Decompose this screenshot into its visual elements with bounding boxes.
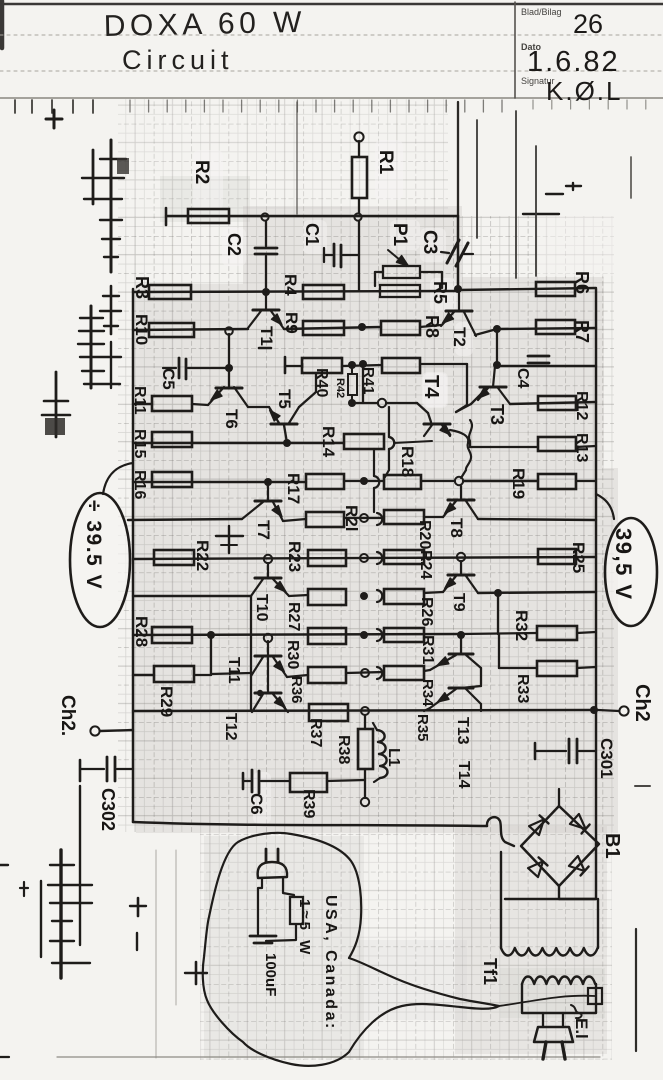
wire hop x377 row519 bbox=[377, 513, 382, 525]
terminal bar left of R40 bbox=[284, 357, 287, 373]
margin cross C bbox=[100, 286, 121, 334]
transformer Tf1 secondary outline bbox=[522, 984, 596, 1013]
wire hop on R14 row bbox=[389, 437, 394, 449]
node C4 row left bbox=[493, 361, 501, 369]
wire secondary bottom stubs bbox=[542, 1013, 544, 1027]
wire row y519 mid bbox=[283, 519, 306, 521]
title form box divider bbox=[514, 2, 516, 98]
svg-text:T2: T2 bbox=[450, 327, 469, 347]
wire row y365 right bbox=[497, 365, 596, 367]
svg-text:R9: R9 bbox=[282, 312, 301, 334]
svg-text:C3: C3 bbox=[419, 230, 440, 254]
wire stub to Ch2 terminal bbox=[598, 710, 619, 711]
mains plug prong right bbox=[562, 1042, 565, 1059]
svg-text:R17: R17 bbox=[284, 473, 303, 504]
svg-text:R22: R22 bbox=[193, 540, 212, 571]
wire row y481 right bbox=[463, 480, 538, 482]
svg-text:R4: R4 bbox=[281, 274, 300, 296]
resistor R28 body bbox=[152, 627, 192, 643]
margin tick mid bbox=[259, 347, 271, 350]
plug leads bbox=[258, 878, 262, 933]
svg-text:T4: T4 bbox=[420, 375, 442, 399]
capacitor C301 bbox=[535, 739, 596, 763]
svg-text:T5: T5 bbox=[275, 389, 294, 409]
resistor R24b body bbox=[384, 550, 424, 564]
svg-text:C1: C1 bbox=[302, 223, 322, 246]
bridge B1 diode 3 bbox=[528, 861, 543, 877]
node junction C2 top (open) bbox=[261, 213, 268, 220]
terminal Ch2 right (open) bbox=[619, 706, 628, 715]
margin cross group F (bottom left) bbox=[0, 786, 92, 978]
resistor R26b body bbox=[384, 589, 424, 604]
node junction R1 bottom (open) bbox=[354, 213, 361, 220]
svg-text:R16: R16 bbox=[131, 470, 148, 499]
bridge B1 diode 1 bbox=[529, 819, 544, 835]
resistor R19b body bbox=[538, 474, 576, 489]
svg-text:Ch2.: Ch2. bbox=[57, 695, 78, 736]
capacitor C302 bbox=[80, 757, 133, 781]
wire row y593 right bbox=[478, 592, 596, 593]
svg-text:R18: R18 bbox=[398, 446, 417, 477]
wire row y519 left bbox=[128, 519, 242, 520]
wire row y403 to T4 bbox=[386, 402, 417, 404]
margin cross top-right 1 bbox=[546, 193, 563, 195]
transistor T5 bbox=[269, 407, 299, 424]
wire column x374 hop bbox=[373, 449, 375, 476]
svg-text:T11: T11 bbox=[225, 657, 242, 684]
margin cross E bbox=[42, 372, 70, 437]
wire bottom rail hook bbox=[487, 817, 514, 846]
ruled line 1 bbox=[0, 34, 663, 36]
resistor R17b body bbox=[306, 474, 344, 489]
resistor R27b body bbox=[308, 589, 346, 605]
transistor T3 bbox=[478, 366, 510, 404]
vertical guide line x516 bbox=[515, 111, 517, 278]
node open circle x365 row711 bbox=[361, 707, 369, 715]
callout ellipse right (39,5 V) bbox=[605, 518, 657, 626]
resistor R16 body bbox=[152, 472, 192, 487]
wire R18 to T8 node bbox=[421, 480, 455, 482]
resistor R40 body bbox=[302, 358, 342, 373]
wire R1 column bbox=[358, 141, 360, 157]
wire T14 leads bbox=[424, 708, 430, 711]
svg-text:39,5 V: 39,5 V bbox=[611, 528, 636, 601]
svg-text:R34: R34 bbox=[419, 679, 436, 707]
transistor T8 bbox=[443, 486, 478, 519]
capacitor C1 bbox=[324, 244, 359, 267]
resistor R31b body bbox=[384, 628, 424, 642]
ground mark near T7 bbox=[216, 526, 243, 553]
node R42 top bbox=[348, 361, 356, 369]
resistor R33 body bbox=[537, 661, 577, 676]
svg-text:1.6.82: 1.6.82 bbox=[527, 46, 620, 78]
svg-text:R40: R40 bbox=[313, 368, 330, 397]
wire R38 top bbox=[364, 715, 366, 729]
wire R21-R20 link bbox=[344, 517, 384, 519]
node T11 top (open) bbox=[264, 634, 272, 642]
wire R8 to T2 bbox=[420, 325, 441, 327]
margin cross G bbox=[130, 898, 146, 950]
ruled line 3 (header bottom) bbox=[0, 97, 663, 99]
node x364 row482 bbox=[360, 477, 368, 485]
resistor R21b body bbox=[306, 512, 344, 527]
page top-left edge mark bbox=[0, 1, 4, 48]
node open circle row404 bbox=[378, 399, 386, 407]
transistor T6 bbox=[208, 387, 248, 407]
svg-text:R33: R33 bbox=[514, 674, 531, 703]
resistor R10 body bbox=[149, 323, 194, 337]
svg-text:R7: R7 bbox=[572, 320, 592, 343]
wire R41 column bbox=[362, 365, 364, 403]
node open circle on R10 row bbox=[225, 327, 233, 335]
plug body (inside blob) bbox=[258, 862, 287, 878]
node R5 junction bbox=[454, 285, 462, 293]
svg-text:R41: R41 bbox=[360, 367, 377, 395]
wire T13-T14 link x481 bbox=[480, 668, 482, 686]
resistor R34b body bbox=[384, 666, 424, 680]
capacitor C6 bbox=[243, 770, 290, 793]
wire T11 emitter column x251 bbox=[250, 596, 252, 711]
svg-text:Blad/Bilag: Blad/Bilag bbox=[521, 7, 562, 17]
terminal bar left of R2 bbox=[165, 208, 168, 225]
wire hop x377 row596 bbox=[377, 590, 382, 602]
margin cross ladder B bbox=[82, 140, 129, 272]
margin tick marks below header bbox=[15, 100, 646, 113]
svg-text:R39: R39 bbox=[300, 789, 317, 818]
svg-text:R31: R31 bbox=[419, 635, 436, 664]
resistor R8 body bbox=[381, 321, 420, 335]
resistor R25 body bbox=[538, 549, 576, 564]
transformer Tf1 primary outline bbox=[501, 852, 598, 948]
svg-text:R10: R10 bbox=[132, 314, 151, 345]
wire top rail y216 bbox=[166, 215, 458, 217]
wire left rail x133 bbox=[132, 289, 135, 822]
wire row y328 mid bbox=[284, 327, 381, 329]
wire R13 to rail bbox=[576, 446, 596, 447]
node T13 top bbox=[457, 631, 465, 639]
wire column x499 (R32-R33) bbox=[498, 634, 500, 668]
terminal bar left of C6 bbox=[242, 773, 245, 789]
svg-text:÷ 39.5 V: ÷ 39.5 V bbox=[82, 500, 105, 590]
wire R26 to T9 bbox=[424, 592, 443, 593]
faint bottom-left grid line v1 bbox=[155, 850, 157, 1058]
wire hop x377 row558 bbox=[377, 552, 382, 564]
svg-text:T13: T13 bbox=[454, 717, 471, 745]
wire row y482 left bbox=[133, 481, 306, 483]
potentiometer P1 body lower (on R5 row) bbox=[380, 285, 420, 297]
wire T3-T13 column wiggle bbox=[469, 420, 472, 447]
wire R34 to T13 bbox=[424, 670, 430, 671]
svg-text:R42: R42 bbox=[334, 378, 346, 398]
node T8 top (open) bbox=[455, 477, 463, 485]
svg-text:T7: T7 bbox=[254, 520, 273, 540]
transistor T10 bbox=[251, 563, 289, 596]
svg-text:Ch2: Ch2 bbox=[631, 684, 653, 722]
node x364 row635 bbox=[360, 631, 368, 639]
wire row y672 mid bbox=[211, 673, 251, 674]
wire row y596 left bbox=[133, 595, 251, 597]
wire T4 collector column x467 bbox=[466, 364, 468, 405]
svg-text:R25: R25 bbox=[569, 542, 588, 573]
wire row y366 bbox=[285, 365, 302, 367]
svg-text:C2: C2 bbox=[224, 233, 244, 256]
svg-text:R24: R24 bbox=[417, 550, 434, 579]
node R28 junction bbox=[207, 631, 215, 639]
wire bridge top stub bbox=[558, 789, 560, 806]
resistor R22 body bbox=[154, 550, 194, 565]
resistor R39b body bbox=[290, 773, 327, 792]
transistor T9 bbox=[443, 561, 478, 593]
svg-text:1≈5 W: 1≈5 W bbox=[296, 899, 313, 957]
transistor T4 bbox=[424, 424, 451, 436]
wire bottom rail y824 bbox=[133, 822, 487, 826]
wire row y292 left bbox=[133, 291, 458, 292]
wire row y635 bbox=[133, 634, 461, 635]
transistor T1 bbox=[248, 292, 284, 329]
wire T5 emitter down bbox=[284, 425, 287, 443]
svg-text:T10: T10 bbox=[253, 594, 270, 622]
wire row y404 left bbox=[133, 403, 152, 405]
svg-text:R1: R1 bbox=[375, 150, 396, 175]
svg-text:DOXA 60 W: DOXA 60 W bbox=[103, 6, 306, 43]
resistor R29 body bbox=[154, 666, 194, 682]
wire R38 bottom bbox=[364, 769, 366, 798]
svg-text:Tf1: Tf1 bbox=[480, 958, 500, 985]
svg-text:R11: R11 bbox=[131, 386, 148, 415]
wire row y558 bbox=[133, 557, 596, 559]
node open circle x365 row674 bbox=[361, 669, 369, 677]
ruled line 2 bbox=[0, 70, 663, 72]
bridge B1 diamond bbox=[521, 806, 599, 886]
svg-text:K.Ø.L: K.Ø.L bbox=[546, 76, 622, 106]
wire T6-T5 link bbox=[248, 406, 269, 408]
wire R39 to R38 column bbox=[327, 780, 365, 781]
potentiometer P1 arrow bbox=[388, 250, 400, 260]
svg-text:P1: P1 bbox=[389, 223, 410, 247]
vertical guide line x536 bbox=[535, 146, 537, 276]
wire row y673 links bbox=[287, 675, 308, 677]
wire row y668 (R33) bbox=[499, 667, 537, 669]
margin tick bottom-left bbox=[0, 1056, 9, 1058]
right margin dash bbox=[635, 785, 650, 787]
resistor R23b body bbox=[308, 550, 346, 566]
svg-text:R26: R26 bbox=[418, 597, 435, 626]
resistor R14 body bbox=[344, 434, 384, 449]
callout ellipse left (- 39.5 V) bbox=[70, 493, 130, 627]
wire row y330 left bbox=[133, 329, 248, 330]
node R42 bottom bbox=[348, 399, 356, 407]
svg-text:L1: L1 bbox=[385, 748, 402, 767]
svg-text:R38: R38 bbox=[335, 735, 352, 764]
margin cross ladder D bbox=[78, 306, 121, 388]
svg-text:R37: R37 bbox=[307, 718, 324, 747]
node R7 junction bbox=[493, 325, 501, 333]
svg-text:R29: R29 bbox=[157, 686, 176, 717]
svg-text:R2l: R2l bbox=[342, 505, 361, 531]
vertical guide line x297 bbox=[296, 102, 298, 214]
wire row y403 right bbox=[510, 402, 596, 404]
svg-text:B1: B1 bbox=[601, 833, 623, 859]
bottom margin rule bbox=[57, 1056, 600, 1058]
wire column x211 bbox=[210, 635, 212, 675]
wire Ch2 left stub bbox=[100, 730, 133, 731]
resistor R20b body bbox=[384, 510, 424, 524]
wire T4 bar entry bbox=[428, 413, 431, 422]
margin cross A bbox=[46, 110, 62, 128]
node T12 base dot bbox=[257, 690, 263, 696]
node x364 row596 bbox=[360, 592, 368, 600]
node T7 top junction bbox=[264, 478, 272, 486]
resistor R38 body bbox=[358, 729, 373, 769]
wire row y447 (R13 feed) bbox=[470, 446, 538, 448]
capacitor C2 bbox=[255, 221, 277, 289]
svg-text:T3: T3 bbox=[487, 404, 507, 425]
svg-text:Circuit: Circuit bbox=[122, 45, 234, 75]
wire P1 upper left hook bbox=[375, 271, 383, 273]
margin cross H bbox=[185, 962, 207, 984]
mains plug body bbox=[534, 1027, 573, 1042]
svg-text:R30: R30 bbox=[284, 640, 301, 669]
svg-text:T12: T12 bbox=[222, 713, 239, 741]
terminal open circle below R38 bbox=[361, 798, 369, 806]
svg-text:R32: R32 bbox=[512, 610, 531, 641]
svg-text:R35: R35 bbox=[414, 714, 431, 742]
node T5 emitter junction bbox=[283, 439, 291, 447]
transistor T11 bbox=[251, 641, 287, 677]
right margin vertical rule bbox=[635, 929, 637, 1051]
node open circle x364 row558 bbox=[360, 554, 368, 562]
node C5 junction bbox=[225, 364, 233, 372]
wire T5 to R40 column bbox=[299, 392, 316, 407]
resistor 1R5 body (inside blob) bbox=[290, 897, 303, 924]
potentiometer P1 body upper bbox=[383, 266, 420, 278]
node R8 left junction bbox=[358, 323, 366, 331]
terminal Ch2 left (open) bbox=[90, 726, 99, 735]
svg-text:R6: R6 bbox=[572, 271, 592, 294]
svg-text:R2: R2 bbox=[191, 160, 212, 184]
svg-text:R3: R3 bbox=[132, 276, 152, 299]
page top border bbox=[0, 3, 663, 6]
wire row y365 mid-right bbox=[420, 363, 467, 365]
ellipse tail left bbox=[103, 463, 133, 494]
svg-text:C5: C5 bbox=[159, 368, 178, 390]
transistor T2 bbox=[441, 290, 476, 336]
svg-text:R20: R20 bbox=[416, 520, 433, 549]
wire row y596 mid bbox=[289, 595, 308, 596]
node T9 top (open) bbox=[457, 553, 465, 561]
resistor R30b body bbox=[308, 628, 346, 644]
node T10 top (open) bbox=[264, 555, 272, 563]
svg-text:T9: T9 bbox=[450, 593, 467, 612]
svg-text:R27: R27 bbox=[285, 602, 302, 631]
resistor R9 body bbox=[303, 321, 344, 335]
wire hop x377 row674 bbox=[377, 667, 382, 679]
margin cross top-right 3 bbox=[566, 183, 581, 190]
wire row y674 left bbox=[133, 674, 154, 676]
inductor L1 coil bbox=[377, 730, 388, 778]
wire row y443 left bbox=[133, 442, 344, 444]
bridge B1 diode 2 bbox=[570, 814, 586, 829]
svg-text:R15: R15 bbox=[131, 429, 148, 458]
svg-text:R28: R28 bbox=[132, 616, 151, 647]
margin tick x631 bbox=[630, 157, 632, 198]
capacitor C5 bbox=[163, 358, 229, 379]
faint bottom-left grid line v2 bbox=[175, 850, 177, 1005]
wire R11 to T6 bbox=[192, 404, 208, 405]
wire resistor to cap bbox=[266, 924, 296, 941]
svg-text:100uF: 100uF bbox=[262, 953, 279, 996]
transformer Tf1 secondary winding bbox=[522, 977, 595, 985]
resistor R36b body bbox=[308, 667, 346, 683]
margin cross top-right 2 bbox=[523, 213, 559, 215]
wire row y520 right bbox=[478, 519, 596, 520]
squiggle near E1 bbox=[571, 1005, 582, 1018]
terminal circle R1 top bbox=[354, 132, 363, 141]
svg-text:T1: T1 bbox=[257, 326, 276, 346]
wire column x389 (R18 feed) bbox=[388, 407, 390, 437]
cloud blob outline bbox=[203, 833, 499, 1066]
resistor R4 body bbox=[303, 285, 344, 299]
fuse box on secondary bbox=[588, 988, 602, 1004]
wire hop x377 row635 bbox=[377, 629, 382, 641]
wire row y711 bbox=[133, 710, 594, 711]
wire T4 emitter wiggle bbox=[450, 430, 471, 478]
node T1 top junction bbox=[262, 288, 270, 296]
svg-text:C302: C302 bbox=[98, 788, 118, 831]
svg-text:C6: C6 bbox=[247, 793, 266, 815]
wire right rail x596 bbox=[595, 289, 598, 899]
capacitor C4 bbox=[528, 356, 549, 363]
wire R14 row right bbox=[394, 441, 432, 443]
resistor R42 body bbox=[348, 374, 357, 395]
svg-text:R12: R12 bbox=[573, 391, 590, 420]
resistor R18b body bbox=[384, 475, 421, 489]
wire row y329 right bbox=[475, 329, 497, 335]
wire T3 left diagonal to T4 bbox=[456, 404, 471, 412]
resistor R15 body bbox=[152, 432, 192, 447]
resistor R1 body bbox=[352, 157, 367, 198]
capacitor 100uF (inside blob) bbox=[250, 933, 276, 943]
capacitor C3 bbox=[441, 240, 473, 266]
svg-text:T6: T6 bbox=[222, 409, 241, 429]
mains plug prong left bbox=[543, 1042, 546, 1059]
wire row y290 right bbox=[458, 288, 596, 290]
vertical guide line x458 upper bbox=[457, 102, 459, 216]
svg-text:R36: R36 bbox=[288, 676, 305, 704]
wire P1 upper right to row bbox=[420, 271, 442, 273]
wire T6 base column x229 bbox=[228, 334, 230, 388]
wire R1 below rail to C1 level bbox=[358, 221, 360, 291]
svg-text:C301: C301 bbox=[597, 738, 616, 779]
transistor T14 bbox=[430, 686, 481, 708]
svg-text:E.l: E.l bbox=[572, 1018, 591, 1039]
wire x497 link bbox=[496, 329, 498, 365]
resistor R6 body bbox=[536, 282, 575, 296]
transistor T7 bbox=[242, 483, 283, 521]
wire row y633 right bbox=[461, 633, 537, 634]
resistor R12 body bbox=[538, 396, 576, 410]
svg-text:26: 26 bbox=[573, 9, 603, 39]
ellipse tail right bbox=[596, 494, 614, 519]
svg-text:T14: T14 bbox=[455, 761, 472, 789]
svg-text:R5: R5 bbox=[430, 281, 450, 304]
svg-text:C4: C4 bbox=[514, 368, 531, 389]
wire x458 heavy (C3 column down to node) bbox=[457, 216, 460, 288]
resistor R13 body bbox=[538, 437, 576, 451]
wire column x498 bbox=[497, 593, 499, 634]
wire R20 to T8 bbox=[424, 516, 443, 518]
wire R19 to rail bbox=[576, 480, 596, 482]
